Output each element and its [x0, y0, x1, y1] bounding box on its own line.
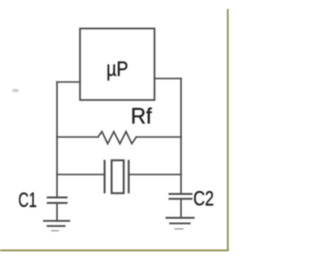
crystal Y1 left plate	[104, 161, 106, 193]
wire resistor right lead	[136, 136, 181, 138]
wire resistor left lead	[57, 136, 98, 138]
svg-text:µP: µP	[106, 58, 128, 81]
crystal Y1 right plate	[128, 161, 130, 193]
ground symbol C2	[166, 217, 193, 219]
IC U1 microprocessor µP box	[80, 29, 155, 101]
crystal Y1 body rectangle	[112, 160, 124, 193]
table cell border bottom	[0, 249, 229, 251]
wire right from µP XTAL2 pin to right rail	[155, 78, 182, 80]
wire right rail vertical	[180, 79, 182, 194]
capacitor C1 top plate	[48, 196, 67, 198]
wire crystal left lead	[57, 174, 105, 176]
wire left rail vertical	[56, 82, 58, 197]
table cell border right	[227, 9, 229, 250]
wire C2 to ground	[180, 199, 182, 218]
capacitor C2 bottom plate	[170, 198, 192, 200]
wire left from µP XTAL1 pin to left rail	[57, 81, 80, 83]
stray scan mark	[12, 89, 19, 93]
svg-text:Rf: Rf	[131, 104, 153, 129]
ground symbol C1	[44, 220, 69, 222]
svg-text:C2: C2	[193, 188, 214, 211]
wire crystal right lead	[129, 174, 181, 176]
svg-text:C1: C1	[18, 189, 37, 212]
wire C1 to ground	[56, 203, 58, 221]
capacitor C2 top plate	[170, 193, 192, 195]
capacitor C1 bottom plate	[48, 202, 67, 204]
resistor Rf zigzag	[98, 132, 136, 144]
